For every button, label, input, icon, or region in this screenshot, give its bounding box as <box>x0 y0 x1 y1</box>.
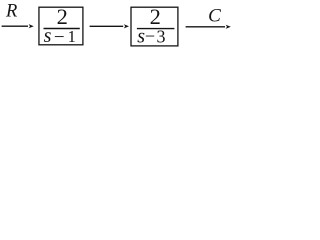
svg-text:3: 3 <box>157 26 166 46</box>
svg-text:2: 2 <box>57 4 68 29</box>
block G1 denominator s - 1 <box>44 25 76 48</box>
svg-text:R: R <box>5 2 17 22</box>
svg-text:s: s <box>44 25 52 47</box>
block G1 value label: 2/(s-1) numerator 2 <box>57 4 68 29</box>
block G1 box <box>39 7 83 45</box>
block G2 value label: 2/(s-3) numerator 2 <box>150 4 161 29</box>
svg-text:−: − <box>54 27 65 48</box>
node C (output signal label) <box>208 5 221 26</box>
svg-text:−: − <box>145 26 155 46</box>
block G2 fraction bar <box>137 28 175 30</box>
node R (input signal label) <box>5 2 17 22</box>
svg-text:1: 1 <box>68 27 76 46</box>
block G2 denominator s - 3 <box>137 25 165 47</box>
svg-text:C: C <box>208 5 221 26</box>
wire: arrow from block G1 to block G2 <box>90 24 129 28</box>
block G1 fraction bar <box>44 28 80 30</box>
block G2 box <box>131 7 178 46</box>
wire: output arrow from block G2 <box>186 25 231 29</box>
wire: input arrow into block G1 <box>2 24 34 28</box>
